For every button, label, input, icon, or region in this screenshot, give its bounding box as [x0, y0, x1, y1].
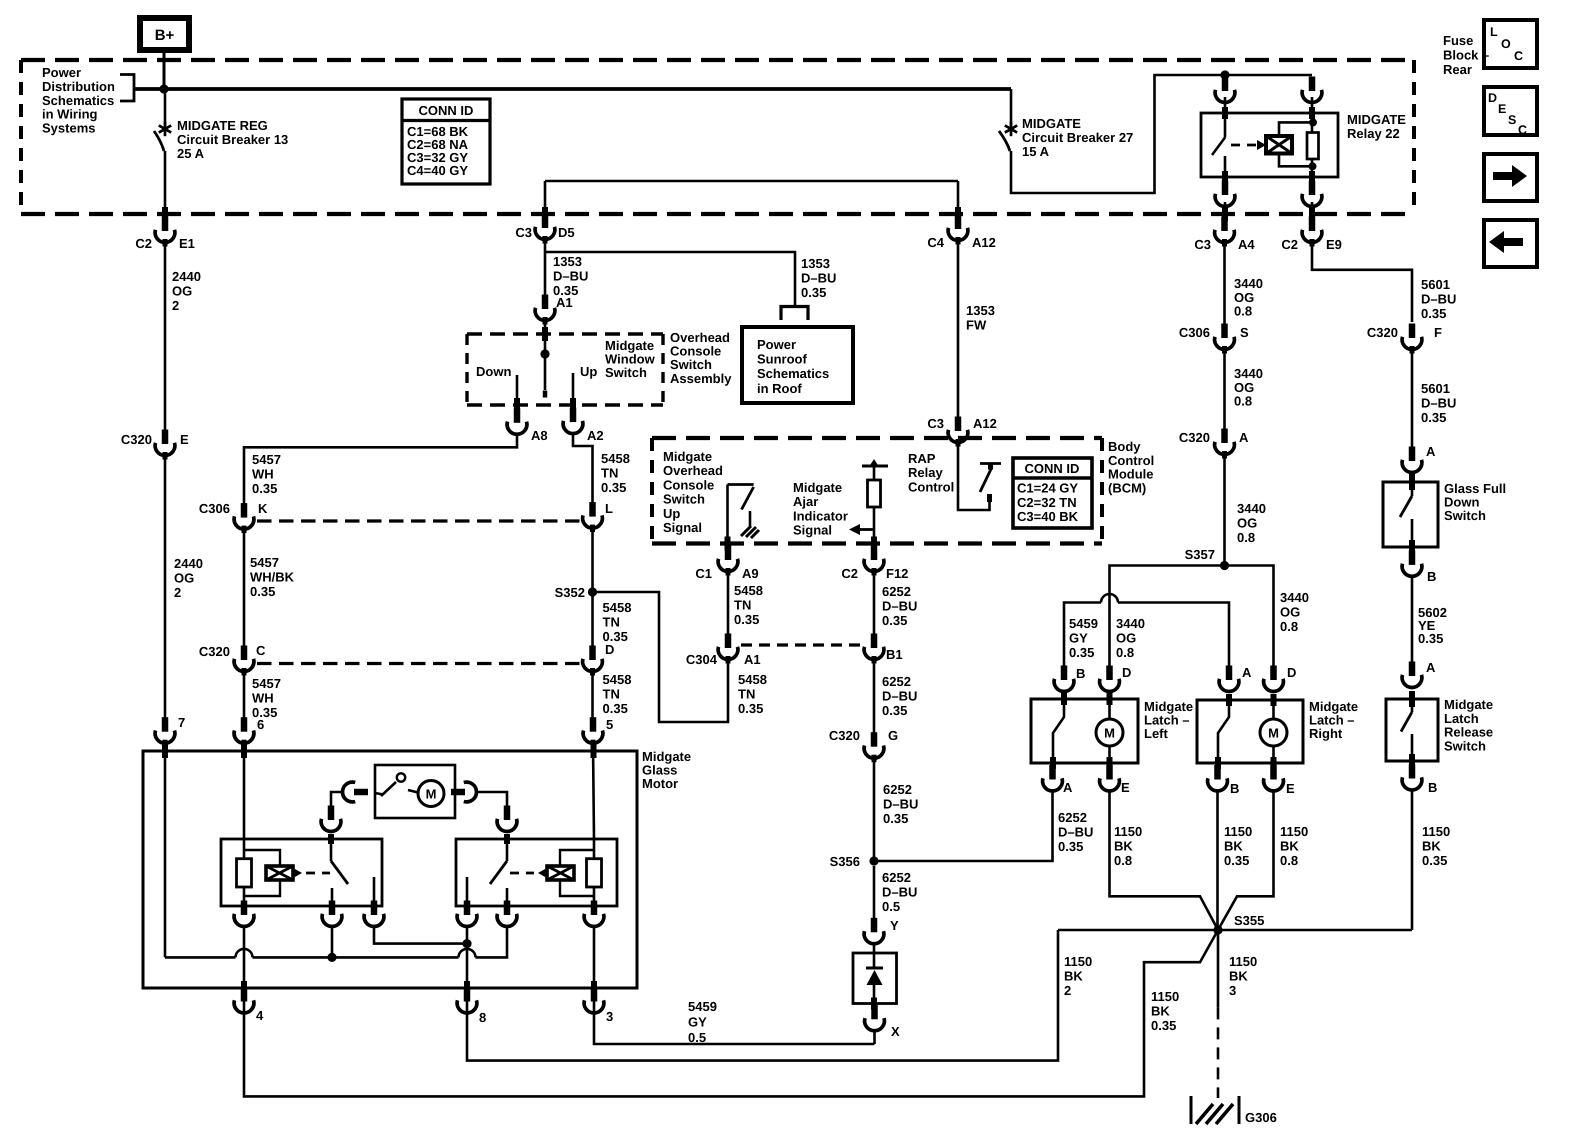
svg-text:C2: C2	[841, 566, 858, 581]
svg-text:A2: A2	[587, 428, 604, 443]
label 5459 GY 0.35 latch tie	[1069, 616, 1098, 660]
svg-text:O: O	[1501, 37, 1511, 51]
svg-text:Control: Control	[1108, 453, 1154, 468]
svg-text:Motor: Motor	[642, 776, 678, 791]
right relay coil dashes	[510, 872, 534, 875]
svg-text:0.35: 0.35	[1421, 410, 1446, 425]
svg-text:Module: Module	[1108, 467, 1154, 482]
connector pin 4	[234, 987, 264, 1023]
svg-text:0.8: 0.8	[1116, 645, 1134, 660]
svg-text:A4: A4	[1238, 237, 1255, 252]
label 2440 OG 2 upper	[172, 269, 201, 313]
svg-text:Midgate: Midgate	[1444, 697, 1493, 712]
relay 22 contact arm	[1212, 97, 1225, 190]
connector A latch left bottom	[1043, 765, 1073, 795]
wire link to pin 8	[466, 926, 469, 1012]
svg-text:C1: C1	[695, 566, 712, 581]
svg-text:Latch: Latch	[1444, 711, 1479, 726]
switch wiper tick	[543, 391, 548, 398]
svg-text:3440: 3440	[1237, 501, 1266, 516]
connector C304 A1	[686, 634, 761, 668]
svg-text:E1: E1	[179, 236, 195, 251]
wire relay contact to connector C3 A4	[1224, 202, 1227, 221]
svg-text:Midgate: Midgate	[793, 480, 842, 495]
midgate latch left box	[1031, 699, 1138, 763]
svg-text:C2: C2	[1281, 237, 1298, 252]
svg-text:3440: 3440	[1116, 616, 1145, 631]
svg-text:Overhead: Overhead	[663, 463, 723, 478]
svg-text:A9: A9	[742, 566, 759, 581]
label 1150 BK 0.35 release	[1422, 824, 1450, 868]
svg-text:5458: 5458	[601, 451, 630, 466]
svg-text:GY: GY	[1069, 631, 1088, 646]
svg-text:C4: C4	[927, 235, 944, 250]
svg-text:Switch: Switch	[1444, 508, 1486, 523]
svg-text:0.8: 0.8	[1237, 530, 1255, 545]
BCM RAP relay control switch	[958, 442, 1001, 510]
wire motor right to right relay	[477, 792, 508, 808]
svg-text:B+: B+	[155, 27, 175, 44]
wire B+ to bus	[163, 50, 166, 89]
connector C306 K	[199, 501, 268, 533]
midgate ajar diode box	[853, 943, 897, 1012]
svg-text:3: 3	[1229, 983, 1236, 998]
wire A to S357	[1223, 454, 1226, 566]
svg-text:2440: 2440	[174, 556, 203, 571]
svg-text:Release: Release	[1444, 725, 1493, 740]
wire S357 to latch right pin D	[1225, 566, 1274, 668]
svg-text:Signal: Signal	[663, 520, 702, 535]
connector right relay top	[497, 806, 517, 832]
svg-text:Indicator: Indicator	[793, 508, 848, 523]
svg-text:5457: 5457	[252, 676, 281, 691]
label MIDGATE Relay 22	[1347, 112, 1406, 141]
motor thermal breaker contact	[375, 773, 405, 796]
svg-text:S355: S355	[1234, 913, 1264, 928]
wire 5457 WH lower	[243, 671, 246, 718]
label 3440 OG 0.8 latch right	[1280, 590, 1309, 634]
relay 22 MIDGATE box	[1201, 113, 1338, 177]
wire S355 to ground G306 solid part	[1217, 930, 1220, 1007]
svg-text:(BCM): (BCM)	[1108, 480, 1146, 495]
svg-text:L: L	[605, 501, 613, 516]
svg-text:C: C	[1514, 49, 1523, 63]
icon box arrow left	[1484, 220, 1537, 267]
junction S356	[869, 856, 878, 865]
svg-text:C306: C306	[199, 501, 230, 516]
svg-text:L: L	[1490, 25, 1498, 39]
connector Y	[864, 918, 899, 944]
wire latch right B to S355	[1216, 790, 1219, 926]
svg-text:0.8: 0.8	[1234, 394, 1252, 409]
wire 5602 YE	[1411, 576, 1414, 663]
wire A4 to C306 S	[1223, 242, 1226, 324]
svg-text:M: M	[1104, 726, 1115, 741]
svg-text:E: E	[1286, 781, 1295, 796]
wire D to pin 5	[591, 671, 594, 718]
svg-text:C: C	[256, 643, 266, 658]
connector B midgate latch release switch	[1402, 764, 1437, 795]
svg-text:0.8: 0.8	[1234, 304, 1252, 319]
svg-text:C306: C306	[1179, 325, 1210, 340]
svg-text:Fuse: Fuse	[1443, 33, 1473, 48]
svg-text:S356: S356	[830, 854, 860, 869]
label 2440 OG 2 lower	[174, 556, 203, 600]
svg-text:D: D	[1488, 91, 1497, 105]
wire pin 6 to left relay	[243, 743, 246, 839]
left relay switch	[331, 834, 374, 906]
svg-text:5458: 5458	[734, 583, 763, 598]
svg-text:C3: C3	[927, 416, 944, 431]
bracket for power distribution note	[120, 75, 134, 102]
motor left inline connector	[343, 782, 368, 802]
connector C320 C	[199, 643, 266, 676]
connector A midgate latch release switch	[1402, 660, 1436, 687]
svg-text:5: 5	[606, 717, 613, 732]
right relay box	[456, 839, 617, 906]
svg-text:0.5: 0.5	[688, 1030, 706, 1045]
svg-text:0.35: 0.35	[250, 584, 275, 599]
label MIDGATE REG Circuit Breaker 13 25 A	[177, 118, 288, 161]
svg-text:X: X	[891, 1024, 900, 1039]
label Midgate Latch - Right	[1309, 699, 1358, 741]
wire S352 to console switch connector	[593, 592, 729, 722]
svg-text:C320: C320	[1367, 325, 1398, 340]
label 3440 OG 0.8 A	[1237, 501, 1266, 545]
label 1353 FW	[966, 303, 995, 333]
motor right inline connector	[451, 782, 476, 802]
svg-text:0.35: 0.35	[1422, 853, 1447, 868]
svg-text:5458: 5458	[603, 672, 632, 687]
wire branch to power sunroof	[545, 252, 795, 305]
svg-text:TN: TN	[603, 687, 620, 702]
connector C4 A12	[927, 215, 995, 251]
icon box DESC	[1484, 87, 1537, 137]
battery feed terminal B+	[140, 18, 189, 50]
midgate glass motor box	[143, 751, 637, 988]
svg-text:E: E	[180, 432, 189, 447]
motor M circle	[408, 781, 444, 807]
label 1150 BK 0.35 motor pin 4	[1151, 989, 1179, 1033]
svg-text:BK: BK	[1280, 839, 1299, 854]
wire A8 to C306 K	[244, 434, 517, 506]
connector L	[583, 501, 613, 532]
junction relay coil top	[1309, 118, 1317, 126]
svg-text:TN: TN	[601, 466, 618, 481]
label Midgate Ajar Indicator Signal	[793, 480, 848, 538]
svg-text:0.8: 0.8	[1280, 853, 1298, 868]
svg-text:S352: S352	[555, 585, 585, 600]
svg-text:BK: BK	[1224, 839, 1243, 854]
wire 2440 OG 2 upper	[164, 242, 167, 431]
svg-text:D–BU: D–BU	[882, 885, 917, 900]
wire pin 4 exit	[243, 926, 246, 1012]
svg-text:5457: 5457	[252, 452, 281, 467]
connector C2 E9	[1281, 217, 1342, 253]
connector C3 D5	[515, 214, 574, 244]
connector B glass full down switch	[1402, 550, 1436, 584]
svg-text:A8: A8	[531, 428, 548, 443]
label 5458 TN 0.35 A9	[734, 583, 763, 627]
svg-text:B: B	[1428, 780, 1437, 795]
label Body Control Module BCM	[1108, 439, 1154, 495]
svg-text:BK: BK	[1229, 969, 1248, 984]
label 1353 D-BU 0.35 window switch	[553, 254, 588, 298]
label 5601 D-BU 0.35 upper	[1421, 277, 1456, 321]
wire S357 to latch left pin D	[1110, 566, 1225, 668]
connector A1 window switch	[535, 295, 555, 325]
wire 5457 WH/BK	[243, 529, 246, 647]
wire relay coil to connector C2 E9	[1311, 202, 1314, 221]
wire S355 to ground G306 dashed part	[1217, 1007, 1220, 1098]
svg-text:0.35: 0.35	[603, 701, 628, 716]
midgate window switch dashed box	[467, 334, 663, 405]
svg-text:M: M	[426, 787, 437, 802]
label 3440 OG 0.8 S	[1234, 366, 1263, 409]
wire G to S356	[873, 757, 876, 861]
svg-text:S: S	[1240, 325, 1249, 340]
svg-text:OG: OG	[1280, 605, 1300, 620]
svg-text:Console: Console	[663, 477, 714, 492]
svg-text:BK: BK	[1064, 969, 1083, 984]
right relay resistor	[587, 839, 602, 906]
svg-text:0.35: 0.35	[252, 481, 277, 496]
svg-text:OG: OG	[1116, 631, 1136, 646]
svg-text:Circuit Breaker 13: Circuit Breaker 13	[177, 132, 288, 147]
connector C306 S	[1179, 324, 1249, 354]
svg-text:C3=40 BK: C3=40 BK	[1017, 509, 1079, 524]
svg-text:0.35: 0.35	[883, 811, 908, 826]
svg-text:A: A	[1063, 780, 1073, 795]
connector E latch left bottom	[1100, 765, 1130, 795]
wire motor left to left relay	[331, 792, 343, 808]
svg-text:Rear: Rear	[1443, 62, 1472, 77]
connector left relay resistor bottom	[234, 901, 254, 927]
svg-text:Down: Down	[476, 364, 511, 379]
svg-text:3440: 3440	[1280, 590, 1309, 605]
connector table CONN ID (fuse block)	[402, 99, 490, 184]
svg-text:Assembly: Assembly	[670, 371, 732, 386]
svg-text:A: A	[1426, 660, 1436, 675]
label 1150 BK 0.8 latch left	[1114, 824, 1142, 868]
svg-text:5458: 5458	[603, 600, 632, 615]
svg-text:E: E	[1121, 780, 1130, 795]
svg-text:D: D	[1122, 665, 1131, 680]
feed bus inside motor with hops	[165, 926, 507, 957]
svg-text:B: B	[1076, 666, 1085, 681]
svg-text:Switch: Switch	[663, 492, 705, 507]
svg-text:OG: OG	[1234, 290, 1254, 305]
label 5458 TN 0.35 below A1	[738, 672, 767, 716]
label 6252 D-BU 0.5	[882, 870, 917, 914]
junction of B+ and bus	[159, 84, 168, 93]
label MIDGATE Circuit Breaker 27 15 A	[1022, 116, 1133, 159]
label Midgate Latch - Left	[1144, 699, 1193, 741]
label 5457 WH 0.35 lower	[252, 676, 281, 720]
svg-text:D: D	[1287, 665, 1296, 680]
svg-text:5601: 5601	[1421, 381, 1450, 396]
connector pin 5 midgate glass motor	[583, 717, 613, 747]
svg-text:5458: 5458	[738, 672, 767, 687]
latch right switch	[1218, 694, 1229, 769]
midgate latch release switch box	[1386, 691, 1438, 768]
svg-text:7: 7	[178, 715, 185, 730]
svg-text:6252: 6252	[882, 674, 911, 689]
svg-text:D–BU: D–BU	[801, 271, 836, 286]
svg-text:D–BU: D–BU	[553, 269, 588, 284]
relay 22 resistor	[1307, 133, 1319, 160]
svg-text:1150: 1150	[1224, 824, 1252, 839]
svg-text:0.35: 0.35	[1058, 839, 1083, 854]
svg-text:0.8: 0.8	[1280, 619, 1298, 634]
svg-text:15 A: 15 A	[1022, 144, 1050, 159]
connector C3 A4	[1194, 217, 1255, 253]
svg-text:6252: 6252	[883, 782, 912, 797]
label 6252 D-BU 0.35 B1	[882, 674, 917, 718]
svg-text:OG: OG	[1234, 380, 1254, 395]
connector C320 A	[1179, 429, 1249, 459]
label 5602 YE 0.35	[1418, 605, 1447, 646]
connector right relay resistor bottom	[584, 901, 604, 927]
latch left motor M	[1096, 693, 1123, 769]
label 1150 BK 2	[1064, 954, 1092, 998]
wire 1353 D-BU to window switch	[544, 239, 547, 298]
motor armature link wire	[374, 926, 467, 944]
connector pin 7 midgate glass motor	[155, 715, 185, 747]
connector D latch left	[1100, 665, 1132, 691]
label Midgate Window Switch	[605, 338, 656, 380]
svg-text:D–BU: D–BU	[1421, 396, 1456, 411]
svg-text:0.35: 0.35	[738, 701, 763, 716]
svg-text:MIDGATE: MIDGATE	[1022, 116, 1081, 131]
junction S357	[1220, 561, 1229, 570]
junction left relay common	[327, 953, 336, 962]
connector right relay contact bottom	[457, 901, 477, 927]
label 3440 OG 0.8 latch left	[1116, 616, 1145, 660]
left relay coil	[244, 850, 302, 896]
svg-text:Schematics: Schematics	[42, 93, 114, 108]
relay 22 contact top connector	[1215, 77, 1235, 103]
BCM internal ground	[741, 511, 759, 538]
svg-text:0.35: 0.35	[801, 285, 826, 300]
wire F12 to B1	[873, 571, 876, 636]
connector B latch left	[1054, 666, 1085, 692]
svg-text:B1: B1	[886, 647, 903, 662]
svg-text:3440: 3440	[1234, 366, 1263, 381]
svg-text:D–BU: D–BU	[1058, 825, 1093, 840]
svg-text:D5: D5	[558, 225, 575, 240]
svg-text:OG: OG	[1237, 516, 1257, 531]
connector left relay top	[321, 806, 341, 832]
connector A2	[563, 408, 604, 443]
svg-text:WH: WH	[252, 467, 274, 482]
svg-text:TN: TN	[738, 687, 755, 702]
left relay box	[221, 839, 382, 906]
label 5458 TN 0.35 A2	[601, 451, 630, 495]
wire release switch B to S355	[1411, 789, 1414, 930]
wire fuse block to connector C4 A12	[957, 181, 960, 221]
relay 22 contact lower connector	[1215, 181, 1235, 207]
svg-text:S357: S357	[1185, 547, 1215, 562]
svg-text:5457: 5457	[250, 555, 279, 570]
svg-text:BK: BK	[1151, 1004, 1170, 1019]
label 1150 BK 0.8 latch right E	[1280, 824, 1308, 868]
inline connector to sunroof harness	[781, 307, 808, 321]
label Midgate Overhead Console Switch Up Signal	[663, 449, 723, 535]
dashed connector row C-D	[257, 662, 580, 665]
svg-text:Right: Right	[1309, 726, 1343, 741]
connector D latch right	[1264, 665, 1297, 691]
svg-text:Schematics: Schematics	[757, 366, 829, 381]
svg-text:A1: A1	[744, 652, 761, 667]
svg-text:1150: 1150	[1280, 824, 1308, 839]
svg-text:Power: Power	[757, 337, 796, 352]
svg-text:6252: 6252	[882, 584, 911, 599]
connector right relay common bottom	[497, 901, 517, 927]
svg-text:Y: Y	[890, 918, 899, 933]
wire A2 to L	[573, 433, 593, 505]
connector B latch right bottom	[1208, 765, 1240, 796]
svg-text:C: C	[1518, 123, 1527, 137]
label 1150 BK 3	[1229, 954, 1257, 998]
connector A8	[507, 408, 548, 443]
connector pin 3	[584, 987, 613, 1024]
wire E9 to C320 F	[1312, 242, 1412, 322]
svg-text:1150: 1150	[1151, 989, 1179, 1004]
svg-text:2: 2	[1064, 983, 1071, 998]
svg-text:OG: OG	[172, 284, 192, 299]
svg-text:Systems: Systems	[42, 121, 95, 136]
svg-text:0.35: 0.35	[1224, 853, 1249, 868]
svg-text:WH/BK: WH/BK	[250, 570, 295, 585]
svg-text:D–BU: D–BU	[882, 689, 917, 704]
label 1353 D-BU 0.35 sunroof branch	[801, 256, 836, 300]
wire 2440 OG 2 lower	[164, 455, 167, 718]
ground G306	[1191, 1096, 1239, 1124]
svg-text:CONN ID: CONN ID	[419, 103, 474, 118]
svg-text:Up: Up	[663, 506, 680, 521]
svg-text:E: E	[1498, 102, 1506, 116]
BCM ajar pull-up resistor	[868, 466, 881, 507]
wire S to C320 A	[1223, 350, 1226, 429]
svg-text:S: S	[1508, 113, 1516, 127]
wire S356 to latch left pin A	[874, 790, 1053, 861]
svg-text:5459: 5459	[1069, 616, 1098, 631]
label Overhead Console Switch Assembly	[670, 330, 732, 386]
svg-text:1150: 1150	[1422, 824, 1450, 839]
circuit breaker 13 MIDGATE REG	[154, 89, 171, 221]
relay 22 coil top connector	[1302, 77, 1322, 103]
dashed connector row K-L	[257, 519, 580, 522]
wire S355 to motor pin 4	[244, 930, 1218, 1096]
connector A latch right	[1219, 665, 1252, 691]
latch tie wire 5459 with hop	[1064, 594, 1229, 667]
svg-text:0.35: 0.35	[1069, 645, 1094, 660]
svg-text:Sunroof: Sunroof	[757, 352, 807, 367]
svg-text:BK: BK	[1422, 839, 1441, 854]
svg-text:1150: 1150	[1114, 824, 1142, 839]
svg-text:F12: F12	[886, 566, 908, 581]
svg-text:0.35: 0.35	[1421, 306, 1446, 321]
svg-text:1150: 1150	[1229, 954, 1257, 969]
midgate latch right box	[1197, 700, 1303, 763]
svg-text:A: A	[1242, 665, 1252, 680]
svg-text:FW: FW	[966, 318, 987, 333]
svg-text:Body: Body	[1108, 439, 1141, 454]
motor assembly sub-box	[375, 765, 455, 818]
right relay coil	[538, 850, 594, 896]
svg-text:Power: Power	[42, 65, 81, 80]
